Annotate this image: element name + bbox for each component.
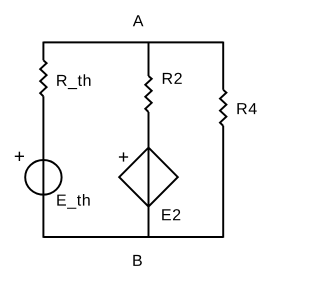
wire middle branch lower (148, 112, 150, 238)
label R4 (237, 103, 256, 114)
resistor R_th (40, 60, 46, 96)
dependent source E2 (119, 148, 178, 207)
label R2 (163, 73, 182, 84)
node B (133, 255, 142, 266)
wire bottom rail B (43, 236, 223, 238)
polarity plus of E_th (15, 152, 24, 161)
label E_th (57, 194, 89, 209)
label E2 (162, 209, 180, 220)
wire left branch upper (42, 42, 44, 61)
resistor R2 (145, 76, 151, 112)
node A (133, 15, 144, 26)
resistor R4 (220, 90, 226, 126)
voltage source E_th (25, 160, 61, 195)
wire left branch lower (42, 96, 44, 238)
wire top rail A (43, 41, 223, 43)
wire middle branch upper (148, 42, 150, 76)
polarity plus of E2 (119, 152, 128, 161)
wire right branch lower (222, 126, 224, 238)
wire right branch upper (222, 42, 224, 90)
label R_th (57, 74, 90, 89)
